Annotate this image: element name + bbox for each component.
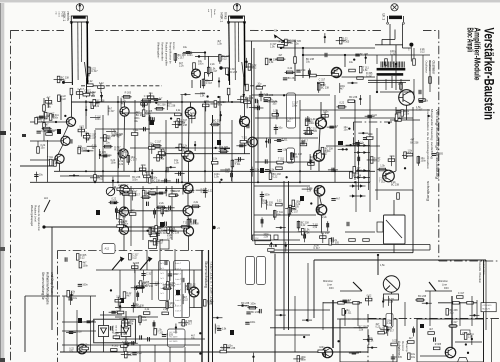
svg-text:100n: 100n (250, 302, 256, 305)
svg-text:R 305: R 305 (395, 356, 402, 359)
svg-text:2,2k: 2,2k (404, 113, 409, 116)
svg-text:b dn 7: b dn 7 (176, 279, 182, 281)
svg-text:0,22: 0,22 (79, 125, 84, 128)
svg-text:4k7: 4k7 (278, 54, 283, 57)
svg-text:2,2k: 2,2k (301, 69, 306, 72)
svg-text:T 311: T 311 (325, 150, 332, 153)
svg-text:4k7: 4k7 (409, 337, 414, 340)
svg-text:2,2k: 2,2k (333, 70, 338, 73)
svg-text:10u: 10u (411, 356, 416, 359)
svg-text:1,5k: 1,5k (407, 149, 412, 152)
svg-text:1,5k: 1,5k (270, 169, 275, 172)
svg-text:10u: 10u (183, 189, 188, 192)
svg-text:DIN: DIN (444, 286, 449, 290)
svg-text:T 311: T 311 (282, 138, 289, 141)
svg-text:0,22: 0,22 (137, 352, 142, 355)
svg-text:10u: 10u (360, 141, 365, 144)
svg-text:C 317: C 317 (366, 75, 373, 78)
svg-text:Playback preamplifier: Playback preamplifier (165, 42, 168, 66)
svg-text:Wiedergabepegel: Wiedergabepegel (30, 205, 34, 226)
svg-text:100n: 100n (389, 155, 395, 158)
svg-text:DIN: DIN (329, 286, 334, 290)
svg-text:A4: A4 (44, 196, 48, 200)
svg-text:C 317: C 317 (319, 78, 326, 81)
svg-text:Oszillator: Oszillator (432, 61, 436, 76)
svg-text:10u: 10u (41, 147, 46, 150)
svg-text:R 305: R 305 (401, 110, 408, 113)
svg-text:4k7: 4k7 (334, 125, 339, 128)
svg-text:BC 238: BC 238 (229, 71, 238, 74)
svg-text:1,5k: 1,5k (270, 46, 275, 49)
svg-text:10u: 10u (349, 61, 354, 64)
svg-text:4k7: 4k7 (155, 284, 160, 287)
svg-text:C 317: C 317 (390, 53, 397, 56)
svg-text:2,2k: 2,2k (264, 93, 269, 96)
svg-text:T 311: T 311 (379, 180, 386, 183)
svg-text:4k7: 4k7 (164, 191, 169, 194)
svg-text:BC 238: BC 238 (410, 141, 419, 144)
svg-text:BC 238: BC 238 (349, 96, 358, 99)
svg-text:4k7: 4k7 (121, 102, 126, 105)
svg-text:Playback Level: Playback Level (34, 205, 37, 222)
svg-text:2,2k: 2,2k (145, 308, 150, 311)
svg-text:C 317: C 317 (155, 141, 162, 144)
svg-text:C 317: C 317 (84, 89, 91, 92)
svg-text:0,22: 0,22 (183, 299, 188, 302)
svg-text:0,22: 0,22 (340, 102, 345, 105)
svg-text:HC 5039: HC 5039 (170, 341, 179, 343)
svg-text:C 317: C 317 (211, 70, 218, 73)
svg-text:BC 238: BC 238 (152, 179, 161, 182)
svg-text:Line: Line (442, 283, 447, 287)
svg-text:HSK 1: HSK 1 (220, 13, 224, 23)
svg-text:4k7: 4k7 (131, 209, 136, 212)
svg-text:R 305: R 305 (112, 345, 119, 348)
svg-text:T 311: T 311 (157, 331, 164, 334)
svg-text:100n: 100n (132, 179, 138, 182)
svg-text:b dn 7: b dn 7 (176, 300, 182, 302)
svg-text:10u: 10u (69, 350, 74, 353)
svg-text:1,5k: 1,5k (221, 346, 226, 349)
svg-text:Record: Record (401, 341, 405, 351)
svg-text:10u: 10u (287, 120, 292, 123)
svg-text:T 311: T 311 (278, 157, 285, 160)
svg-text:links: links (224, 13, 228, 20)
svg-text:10u: 10u (272, 102, 277, 105)
svg-text:4k7: 4k7 (244, 144, 249, 147)
svg-text:mit: mit (55, 12, 58, 15)
svg-text:Wiedergabe-: Wiedergabe- (157, 42, 161, 59)
svg-text:0,22: 0,22 (301, 224, 306, 227)
svg-text:4k7: 4k7 (91, 320, 96, 323)
svg-text:10u: 10u (47, 106, 52, 109)
svg-text:0,22: 0,22 (99, 82, 104, 85)
svg-text:R 305: R 305 (121, 333, 128, 336)
svg-text:1,5k: 1,5k (389, 300, 394, 303)
svg-text:4k7: 4k7 (379, 327, 384, 330)
svg-text:C 317: C 317 (178, 57, 185, 60)
svg-text:HC 5039: HC 5039 (170, 337, 179, 339)
svg-text:Verstärker-Baustein: Verstärker-Baustein (481, 28, 496, 121)
svg-text:10u: 10u (306, 61, 311, 64)
svg-text:T 311: T 311 (207, 302, 214, 305)
svg-text:C 317: C 317 (91, 70, 98, 73)
svg-text:R 305: R 305 (435, 343, 442, 346)
svg-text:100n: 100n (198, 63, 204, 66)
svg-text:2,2k: 2,2k (387, 322, 392, 325)
svg-text:1,5k: 1,5k (222, 327, 227, 330)
svg-text:1,5k: 1,5k (214, 176, 219, 179)
svg-text:0,22: 0,22 (80, 256, 85, 259)
svg-text:Punkt: Punkt (61, 12, 64, 18)
svg-text:Mikrofon: Mikrofon (438, 279, 449, 283)
svg-text:10u: 10u (295, 43, 300, 46)
svg-text:0,22: 0,22 (112, 197, 117, 200)
svg-text:2,2k: 2,2k (118, 184, 123, 187)
svg-text:0,22: 0,22 (277, 199, 282, 202)
svg-text:R 305: R 305 (133, 262, 140, 265)
svg-text:Bloc Ampli: Bloc Ampli (465, 28, 474, 53)
svg-text:2,2k: 2,2k (262, 202, 267, 205)
svg-text:Vermagnetisierungs-Umschaltung: Vermagnetisierungs-Umschaltung (435, 109, 440, 180)
svg-text:10u: 10u (134, 120, 139, 123)
svg-text:C 317: C 317 (458, 292, 465, 295)
svg-text:100n: 100n (83, 264, 89, 267)
svg-text:1,5k: 1,5k (282, 148, 287, 151)
svg-text:4k7: 4k7 (429, 328, 434, 331)
svg-text:0,22: 0,22 (392, 339, 397, 342)
svg-text:0,22: 0,22 (367, 294, 372, 297)
svg-text:BC 238: BC 238 (269, 245, 278, 248)
svg-text:10u: 10u (191, 337, 196, 340)
svg-text:T 311: T 311 (118, 221, 125, 224)
svg-text:Punkt: Punkt (213, 9, 216, 15)
svg-text:10u: 10u (257, 83, 262, 86)
svg-text:100n: 100n (141, 164, 147, 167)
svg-text:C 317: C 317 (146, 272, 153, 275)
svg-text:10u: 10u (294, 156, 299, 159)
svg-text:Mot 12V: Mot 12V (483, 308, 491, 311)
svg-text:4k7: 4k7 (158, 98, 163, 101)
svg-text:T 311: T 311 (266, 204, 273, 207)
svg-text:R 305: R 305 (167, 333, 174, 336)
svg-text:BC 238: BC 238 (321, 86, 330, 89)
svg-text:b dn 7: b dn 7 (176, 284, 182, 286)
svg-text:1,5k: 1,5k (174, 161, 179, 164)
svg-text:1,5k: 1,5k (369, 340, 374, 343)
svg-text:0,22: 0,22 (185, 288, 190, 291)
svg-text:2,2k: 2,2k (167, 237, 172, 240)
svg-text:R 305: R 305 (114, 149, 121, 152)
svg-text:0,22: 0,22 (356, 351, 361, 354)
svg-text:Niveau de reproduction: Niveau de reproduction (37, 205, 40, 231)
svg-text:1,5k: 1,5k (363, 69, 368, 72)
svg-text:Tonwelle / Bourdon: Tonwelle / Bourdon (478, 261, 482, 284)
svg-text:0,22: 0,22 (53, 162, 58, 165)
svg-text:10u: 10u (225, 171, 230, 174)
svg-text:100n: 100n (172, 273, 178, 276)
svg-text:0,22: 0,22 (88, 80, 93, 83)
svg-text:2,2k: 2,2k (423, 99, 428, 102)
svg-text:0,22: 0,22 (273, 176, 278, 179)
svg-text:Aufnahme/Wiedergabe: Aufnahme/Wiedergabe (46, 272, 50, 305)
svg-text:0,22: 0,22 (372, 114, 377, 117)
svg-text:A12: A12 (105, 247, 110, 251)
svg-text:0,22: 0,22 (132, 256, 137, 259)
svg-text:1,5k: 1,5k (380, 264, 385, 267)
svg-text:C 317: C 317 (313, 247, 320, 250)
svg-text:C 317: C 317 (190, 112, 197, 115)
svg-text:100n: 100n (187, 54, 193, 57)
svg-text:0,22: 0,22 (296, 203, 301, 206)
svg-text:100n: 100n (319, 346, 325, 349)
svg-text:0,22: 0,22 (288, 67, 293, 70)
svg-text:0,22: 0,22 (142, 319, 147, 322)
svg-text:1,5k: 1,5k (273, 110, 278, 113)
svg-text:C 317: C 317 (144, 95, 151, 98)
svg-text:T 311: T 311 (346, 311, 353, 314)
svg-text:0,22: 0,22 (41, 130, 46, 133)
svg-text:T 311: T 311 (133, 129, 140, 132)
svg-text:BC 238: BC 238 (353, 175, 362, 178)
svg-text:BC 238: BC 238 (136, 114, 145, 117)
svg-text:BC 238: BC 238 (145, 285, 154, 288)
svg-text:4k7: 4k7 (347, 299, 352, 302)
svg-text:10u: 10u (73, 297, 78, 300)
svg-text:10u: 10u (344, 128, 349, 131)
svg-text:BC 238: BC 238 (360, 53, 369, 56)
svg-text:R 305: R 305 (437, 153, 444, 156)
svg-text:4k7: 4k7 (119, 307, 124, 310)
svg-text:BC 238: BC 238 (136, 304, 145, 307)
svg-text:0,22: 0,22 (189, 191, 194, 194)
svg-text:100n: 100n (95, 118, 101, 121)
svg-text:4k7: 4k7 (127, 295, 132, 298)
svg-text:100n: 100n (250, 321, 256, 324)
svg-text:C 317: C 317 (169, 305, 176, 308)
svg-text:R 305: R 305 (125, 92, 132, 95)
svg-text:2,2k: 2,2k (399, 117, 404, 120)
svg-text:lecture: lecture (172, 42, 175, 50)
svg-text:10u: 10u (108, 154, 113, 157)
svg-text:4k7: 4k7 (117, 136, 122, 139)
svg-text:T 311: T 311 (235, 163, 242, 166)
svg-text:2,2k: 2,2k (159, 202, 164, 205)
svg-text:10u: 10u (277, 213, 282, 216)
svg-text:schaltung: schaltung (426, 181, 431, 201)
svg-text:2,2k: 2,2k (163, 308, 168, 311)
svg-text:0,22: 0,22 (61, 98, 66, 101)
svg-text:4k7: 4k7 (340, 88, 345, 91)
svg-text:Commutation de la prémagnétisa: Commutation de la prémagnétisation (426, 109, 430, 169)
svg-text:BC 238: BC 238 (391, 184, 400, 187)
svg-text:R 305: R 305 (183, 150, 190, 153)
svg-text:100n: 100n (83, 343, 89, 346)
svg-text:BC 238: BC 238 (191, 222, 200, 225)
svg-text:2,2k: 2,2k (193, 201, 198, 204)
svg-text:100n: 100n (146, 113, 152, 116)
svg-text:4k7: 4k7 (150, 188, 155, 191)
svg-text:1,5k: 1,5k (90, 93, 95, 96)
svg-text:C 317: C 317 (254, 108, 261, 111)
svg-text:10u: 10u (165, 210, 170, 213)
svg-text:C 317: C 317 (44, 115, 51, 118)
svg-text:rechts: rechts (66, 12, 70, 22)
svg-text:BC 238: BC 238 (321, 232, 330, 235)
svg-text:Oscillateur: Oscillateur (425, 61, 429, 73)
svg-text:4k7: 4k7 (92, 147, 97, 150)
svg-text:10u: 10u (39, 174, 44, 177)
svg-text:C 317: C 317 (310, 118, 317, 121)
svg-text:0,22: 0,22 (420, 51, 425, 54)
svg-text:1,5k: 1,5k (213, 158, 218, 161)
svg-text:Stummschaltung: Stummschaltung (204, 261, 208, 288)
svg-text:Mikrofon: Mikrofon (323, 279, 334, 283)
svg-text:2,2k: 2,2k (38, 120, 43, 123)
svg-text:100n: 100n (111, 161, 117, 164)
svg-text:1,5k: 1,5k (217, 42, 222, 45)
svg-text:b dn 7: b dn 7 (176, 263, 182, 265)
svg-text:100n: 100n (309, 122, 315, 125)
svg-text:1,5k: 1,5k (269, 61, 274, 64)
svg-text:0,22: 0,22 (222, 57, 227, 60)
svg-text:2,2k: 2,2k (322, 216, 327, 219)
svg-text:BC 238: BC 238 (288, 77, 297, 80)
svg-text:4k7: 4k7 (168, 229, 173, 232)
svg-text:2,2k: 2,2k (307, 190, 312, 193)
svg-text:2,2k: 2,2k (179, 65, 184, 68)
svg-text:C 317: C 317 (108, 110, 115, 113)
svg-text:10u: 10u (449, 311, 454, 314)
svg-text:1,5k: 1,5k (313, 226, 318, 229)
svg-text:1,5k: 1,5k (200, 94, 205, 97)
svg-text:4k7: 4k7 (45, 123, 50, 126)
svg-text:100n: 100n (292, 104, 298, 107)
svg-text:BC 238: BC 238 (167, 105, 176, 108)
svg-text:1,5k: 1,5k (359, 328, 364, 331)
svg-text:10u: 10u (183, 46, 188, 49)
svg-text:gruenem: gruenem (210, 9, 213, 18)
svg-text:b dn 7: b dn 7 (176, 295, 182, 297)
svg-text:2,2k: 2,2k (176, 109, 181, 112)
svg-text:100n: 100n (82, 283, 88, 286)
svg-text:LK 1: LK 1 (382, 14, 386, 21)
svg-text:T 311: T 311 (241, 137, 248, 140)
svg-text:C 317: C 317 (131, 158, 138, 161)
svg-text:1,5k: 1,5k (380, 164, 385, 167)
svg-text:R 305: R 305 (332, 241, 339, 244)
svg-text:4k7: 4k7 (124, 185, 129, 188)
svg-text:+V: +V (217, 227, 220, 230)
svg-text:C 317: C 317 (292, 210, 299, 213)
svg-text:2,2k: 2,2k (310, 159, 315, 162)
svg-text:0,22: 0,22 (208, 190, 213, 193)
svg-text:T 311: T 311 (120, 215, 127, 218)
svg-text:Line: Line (327, 283, 332, 287)
svg-text:Vorverstaerker: Vorverstaerker (161, 42, 165, 61)
svg-text:2,2k: 2,2k (116, 296, 121, 299)
svg-text:BC 238: BC 238 (213, 119, 222, 122)
svg-text:Preamplificateur de: Preamplificateur de (169, 42, 172, 64)
svg-text:C 317: C 317 (90, 136, 97, 139)
svg-text:0,22: 0,22 (144, 192, 149, 195)
svg-text:100n: 100n (191, 286, 197, 289)
svg-text:2,2k: 2,2k (210, 63, 215, 66)
svg-text:BC 238: BC 238 (74, 331, 83, 334)
svg-text:1,5k: 1,5k (255, 169, 260, 172)
svg-text:C 317: C 317 (206, 82, 213, 85)
svg-text:0,22: 0,22 (159, 148, 164, 151)
svg-text:4k7: 4k7 (336, 197, 341, 200)
svg-text:BC 238: BC 238 (251, 311, 260, 314)
svg-text:2,2k: 2,2k (119, 163, 124, 166)
svg-text:C 317: C 317 (451, 321, 458, 324)
svg-text:100n: 100n (421, 159, 427, 162)
svg-text:BC 238: BC 238 (157, 104, 166, 107)
svg-text:10u: 10u (278, 126, 283, 129)
svg-text:100n: 100n (323, 111, 329, 114)
svg-text:100n: 100n (368, 133, 374, 136)
svg-text:mit: mit (207, 9, 210, 12)
svg-text:0,22: 0,22 (52, 129, 57, 132)
svg-text:b dn 7: b dn 7 (176, 305, 182, 307)
svg-text:1,5k: 1,5k (263, 236, 268, 239)
svg-text:100n: 100n (53, 117, 59, 120)
svg-text:100n: 100n (264, 193, 270, 196)
svg-text:T 311: T 311 (356, 169, 363, 172)
svg-text:BC 238: BC 238 (418, 295, 427, 298)
svg-text:T 311: T 311 (170, 190, 177, 193)
svg-text:b dn 7: b dn 7 (176, 311, 182, 313)
svg-text:4 214 019: 4 214 019 (483, 305, 493, 307)
svg-text:100n: 100n (204, 100, 210, 103)
svg-text:10u: 10u (106, 141, 111, 144)
svg-text:rotem: rotem (58, 12, 61, 18)
svg-text:C 317: C 317 (78, 148, 85, 151)
